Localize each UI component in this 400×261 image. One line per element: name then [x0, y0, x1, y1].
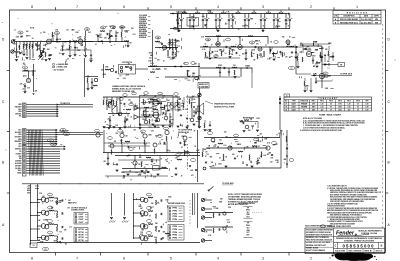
svg-text:.1: .1	[284, 163, 285, 165]
arrow X6	[56, 141, 57, 143]
resistor R99	[86, 78, 89, 83]
ribbon cable verticals	[29, 130, 30, 176]
wire AA mid	[206, 147, 268, 149]
transistor Q3	[118, 112, 122, 116]
capacitor C45	[61, 212, 63, 214]
wire W6	[27, 115, 59, 117]
capacitor C81	[180, 114, 182, 116]
tube V3 circle	[216, 42, 220, 46]
svg-text:WHT/BLK: WHT/BLK	[15, 149, 21, 151]
resistor R47	[144, 106, 149, 109]
input jack J1	[11, 40, 14, 43]
svg-text:22V: 22V	[348, 109, 351, 111]
wire opamp out2	[139, 116, 153, 118]
resistor R71 emitter	[56, 200, 59, 205]
wire pi extra	[204, 57, 240, 59]
svg-text:.022: .022	[24, 75, 27, 77]
resistor R22 rail	[221, 12, 226, 15]
svg-text:REVERB: REVERB	[301, 107, 307, 109]
svg-text:EXT: EXT	[247, 235, 250, 237]
resistor R84	[212, 213, 215, 218]
resistor R45	[116, 97, 118, 101]
svg-text:.01: .01	[141, 162, 143, 164]
resistor R6	[42, 48, 45, 53]
capacitor C68	[48, 54, 50, 56]
svg-text:220: 220	[180, 153, 183, 155]
label oval Q20	[48, 193, 53, 196]
switch block box	[140, 96, 174, 126]
capacitor C50	[160, 226, 162, 228]
resistor R77	[148, 223, 153, 226]
connector pin square W1	[23, 104, 25, 106]
svg-text:PIN: PIN	[173, 226, 178, 228]
transistor Q33	[156, 118, 160, 122]
svg-text:195V: 195V	[312, 107, 315, 109]
svg-text:220: 220	[45, 44, 48, 46]
svg-text:22UF: 22UF	[77, 50, 81, 52]
transistor Q14	[211, 138, 215, 142]
capacitor C33	[169, 120, 171, 122]
capacitor C73	[332, 55, 334, 57]
svg-text:PIN 3: PIN 3	[329, 101, 333, 103]
svg-text:GRY: GRY	[18, 143, 21, 145]
svg-text:0V: 0V	[330, 109, 332, 111]
resistor R98	[146, 156, 151, 159]
wire ot2	[302, 44, 304, 53]
svg-text:25KB: 25KB	[139, 25, 146, 27]
svg-text:10-23-95: 10-23-95	[361, 19, 371, 21]
resistor R5	[40, 42, 42, 45]
svg-text:195V: 195V	[338, 107, 341, 109]
logo registered mark	[355, 234, 356, 235]
ground output	[304, 90, 307, 92]
arrow W4	[57, 111, 58, 113]
arrow W5	[57, 113, 58, 115]
svg-text:230V: 230V	[312, 109, 315, 111]
filter capacitor C18B	[264, 14, 266, 19]
switch stack leads	[177, 40, 181, 42]
wire right col rail	[198, 95, 200, 128]
svg-text:YEL: YEL	[19, 116, 22, 118]
label oval V3B	[226, 38, 231, 41]
svg-text:220: 220	[128, 99, 131, 101]
resistor R118	[102, 100, 105, 105]
svg-text:220: 220	[26, 31, 29, 33]
transistor Q5	[164, 116, 168, 120]
node C	[127, 41, 128, 42]
label oval U2a	[129, 103, 133, 106]
resistor R8	[73, 40, 78, 43]
wire X7	[27, 143, 58, 145]
wire cc right vertical 2	[192, 193, 194, 215]
wire q row 2	[200, 76, 240, 78]
capacitor C62	[269, 49, 271, 51]
capacitor C2	[37, 42, 39, 46]
svg-text:P7: P7	[50, 140, 52, 142]
wire reverb down	[33, 64, 35, 92]
wire opamp out1	[139, 107, 153, 109]
title block outer	[305, 228, 385, 254]
svg-text:REVERB: REVERB	[139, 31, 148, 33]
wire stage4 out	[47, 235, 49, 237]
resistor R44	[111, 97, 113, 100]
wire pa extra3	[159, 156, 161, 171]
svg-text:220: 220	[101, 70, 104, 72]
extra input parts	[18, 45, 21, 50]
connector pin square Y9	[23, 165, 25, 167]
resistor R105	[272, 52, 275, 57]
connector pin square Y1	[23, 146, 25, 148]
tube chart table	[284, 97, 372, 111]
svg-text:1: 1	[356, 5, 358, 9]
wire stage3 base	[38, 225, 43, 227]
svg-text:BLU: BLU	[19, 130, 22, 132]
capacitor C82	[186, 117, 188, 119]
svg-text:BRN/WHT: BRN/WHT	[15, 141, 22, 143]
wire dd rail1	[205, 212, 233, 214]
resistor R70	[49, 234, 54, 237]
part number cells	[337, 242, 339, 248]
wire jack2	[205, 208, 212, 210]
potentiometer VR1 wiper	[39, 52, 44, 57]
svg-text:VIO/WHT: VIO/WHT	[16, 153, 22, 155]
junction PI	[217, 36, 218, 37]
diode stack D14	[193, 111, 195, 113]
capacitor C21	[225, 46, 227, 48]
svg-text:4-10-96: 4-10-96	[361, 21, 371, 24]
output jack J3	[201, 207, 204, 210]
svg-text:1.6V: 1.6V	[321, 107, 324, 109]
wire fb vertical	[310, 78, 312, 90]
resistor R62	[222, 154, 225, 160]
wire stage4 base	[38, 237, 43, 239]
arrow W1	[57, 104, 58, 106]
arrow spkr	[208, 187, 214, 192]
svg-text:.1: .1	[115, 38, 116, 40]
svg-text:1.2V: 1.2V	[348, 104, 351, 106]
zone tick marks bottom	[55, 253, 57, 256]
svg-text:2: 2	[310, 256, 312, 260]
wire pa extra1	[104, 142, 150, 144]
resistor R106	[289, 45, 294, 48]
capacitor C74	[316, 61, 318, 63]
label oval D4	[184, 62, 188, 65]
connector pin square Y12	[23, 172, 25, 174]
resistor R76	[148, 210, 153, 213]
svg-text:.01: .01	[58, 41, 60, 43]
wire speaker chain	[199, 88, 201, 126]
filter capacitor C15A	[215, 14, 217, 19]
svg-text:.1: .1	[231, 15, 232, 17]
svg-text:220: 220	[146, 238, 149, 240]
resistor R114	[163, 105, 166, 110]
svg-text:.1: .1	[124, 144, 125, 146]
svg-text:.1: .1	[159, 47, 160, 49]
connector pin square Y7	[23, 160, 25, 162]
wire cc vertical 3	[133, 193, 135, 239]
wire sw right	[191, 97, 193, 101]
resistor R59	[218, 142, 223, 145]
capacitor C64	[127, 146, 129, 148]
label oval Q26	[147, 220, 152, 223]
ground right col 1	[177, 125, 180, 127]
wire stage2 base	[38, 212, 43, 214]
svg-text:100KB: 100KB	[139, 33, 146, 35]
resistor R27	[203, 45, 208, 48]
wire cc right vertical 3	[194, 193, 196, 215]
svg-text:1K: 1K	[197, 11, 199, 13]
svg-text:.01: .01	[313, 66, 315, 68]
ground AA1	[225, 165, 228, 167]
transistor Q8	[143, 134, 147, 138]
wire X4	[27, 136, 58, 138]
dash column	[187, 144, 189, 170]
wire mid77	[165, 76, 199, 78]
connector pin square Y8	[23, 163, 25, 165]
diode D17	[252, 125, 254, 127]
ground reverb	[24, 91, 27, 93]
svg-text:5: 5	[170, 5, 172, 9]
value labels jack panel	[213, 206, 216, 208]
diode D16	[246, 67, 248, 69]
label oval U3	[156, 99, 160, 102]
legend signal ground	[53, 66, 55, 68]
wire Y8	[27, 162, 61, 164]
resistor R42	[186, 70, 189, 76]
relay box K2	[153, 166, 160, 171]
ground sw mid	[152, 123, 155, 125]
output jack J4	[201, 216, 204, 219]
capacitor C69	[152, 114, 154, 116]
junctions mid row	[174, 66, 175, 67]
filter capacitor C12B	[180, 14, 182, 19]
node D	[283, 46, 284, 47]
pot wiper stage1b	[38, 55, 43, 60]
svg-text:.1: .1	[14, 55, 15, 57]
wire bottom long	[37, 242, 100, 244]
resistor R61	[252, 145, 257, 148]
wire cc vertical 1	[111, 193, 113, 216]
wire cluster85	[85, 76, 98, 78]
pot oval TREBLE	[110, 26, 115, 29]
wire Y9	[27, 165, 61, 167]
tube V8B	[153, 112, 159, 118]
svg-text:RTN: RTN	[79, 232, 84, 234]
ground input	[15, 59, 18, 61]
wire W long 2	[58, 106, 93, 108]
svg-text:.01: .01	[164, 114, 166, 116]
ground S1	[243, 130, 246, 132]
resistor R16	[167, 50, 170, 56]
connector pin square X6	[23, 141, 25, 143]
ground hatch 2	[123, 217, 126, 219]
transistor Q4	[144, 120, 148, 124]
svg-text:FUNCTION: FUNCTION	[300, 101, 307, 103]
svg-text:3: 3	[262, 256, 264, 260]
wire stage2 bias	[60, 49, 91, 51]
svg-text:.1: .1	[23, 60, 24, 62]
ground hatch 1	[110, 217, 113, 219]
wire pi right2	[287, 44, 289, 47]
svg-text:RED/WHT: RED/WHT	[15, 107, 22, 109]
power tube V5	[306, 51, 311, 56]
svg-text:220: 220	[213, 146, 216, 148]
connector P3 strip	[23, 145, 27, 176]
junction stage2	[30, 215, 31, 216]
resistor R82 emitter	[155, 239, 158, 244]
svg-text:220: 220	[163, 144, 166, 146]
capacitor C83	[223, 67, 225, 69]
svg-text:CONNECTIONS: CONNECTIONS	[71, 210, 84, 212]
svg-text:SH 1/1: SH 1/1	[376, 251, 383, 253]
svg-text:.022: .022	[224, 132, 227, 134]
right column res R115	[176, 100, 179, 105]
capacitor C86	[312, 59, 314, 61]
svg-text:220: 220	[175, 96, 178, 98]
label oval C9	[168, 42, 173, 45]
resistor R125	[69, 42, 71, 46]
svg-text:REVISED PER ECO: REVISED PER ECO	[340, 22, 359, 24]
wire pwr top	[302, 45, 322, 47]
wire pa mid1	[122, 168, 168, 170]
junction dots y184	[60, 183, 61, 184]
resistor R65 left	[201, 152, 204, 157]
svg-text:V2: V2	[285, 107, 287, 109]
wire sw vert1	[119, 97, 121, 112]
output transistor Q22	[41, 224, 46, 229]
transistor Q6	[190, 118, 194, 122]
op-amp U2	[134, 115, 139, 120]
connector pin square X3	[23, 134, 25, 136]
wire W1	[27, 104, 59, 106]
title block divider	[333, 228, 335, 254]
wire jack3	[205, 217, 212, 219]
pin stack BB1	[74, 213, 88, 225]
transistor Q16	[228, 146, 232, 150]
resistor R4	[32, 42, 34, 45]
svg-text:.022: .022	[287, 44, 290, 46]
wire B+ drop	[177, 12, 179, 32]
right column res R116	[182, 103, 185, 108]
svg-text:220: 220	[133, 130, 136, 132]
connector pin square Y6	[23, 158, 25, 160]
label oval Q22	[48, 220, 53, 223]
filter capacitor C14A	[202, 14, 204, 19]
tube plate marks	[307, 49, 312, 51]
thermal box	[30, 243, 37, 248]
bottom row line	[334, 248, 385, 250]
label oval Q23	[48, 231, 53, 234]
svg-text:.022: .022	[180, 105, 183, 107]
revision table	[333, 11, 381, 25]
wire stage1-2	[52, 41, 68, 43]
output transistor Q20	[41, 197, 46, 202]
node A junctions	[23, 41, 24, 42]
svg-text:PIN 2: PIN 2	[320, 101, 324, 103]
capacitor C80	[167, 109, 169, 111]
resistor R54	[143, 140, 146, 145]
wire PI bias	[205, 36, 268, 38]
svg-text:INPUT: INPUT	[26, 36, 31, 38]
transistor Q9b	[96, 133, 100, 137]
connector pin square X5	[23, 138, 25, 140]
capacitor C4	[69, 40, 71, 42]
connector pin square Y5	[23, 155, 25, 157]
resistor R69	[49, 223, 54, 226]
resistor R36	[303, 81, 306, 86]
svg-text:PIN: PIN	[173, 232, 178, 234]
part number row line	[334, 241, 385, 243]
resistor R58	[177, 158, 182, 161]
svg-text:RTN: RTN	[79, 240, 84, 242]
wire W long 1	[58, 104, 93, 106]
capacitor C43	[286, 147, 288, 149]
svg-text:.022: .022	[240, 122, 243, 124]
resistor R80 emitter	[155, 214, 158, 219]
resistor chain RA	[150, 65, 155, 68]
output jack J6	[201, 239, 204, 242]
filter capacitor C16B	[232, 14, 234, 19]
tube V4D circle	[286, 40, 290, 44]
resistor R113	[142, 111, 145, 116]
svg-text:.1: .1	[142, 225, 143, 227]
resistor R104	[148, 119, 151, 124]
transistor Q7	[120, 133, 124, 137]
resistor R90	[204, 52, 207, 57]
optocoupler box2	[175, 103, 180, 111]
wire X2	[27, 131, 58, 133]
svg-text:220: 220	[74, 42, 77, 44]
svg-text:.1: .1	[285, 42, 286, 44]
svg-text:.1: .1	[162, 94, 163, 96]
svg-text:.1: .1	[195, 177, 196, 179]
ground rail stubs	[178, 29, 180, 31]
capacitor C46	[61, 226, 63, 228]
svg-text:PIN 7: PIN 7	[347, 101, 351, 103]
connector pin square X2	[23, 132, 25, 134]
resistor hatch marks input	[23, 44, 25, 45]
wire sw mid3	[157, 110, 159, 118]
connector pin square Y10	[23, 167, 25, 169]
svg-text:E. SHORTING PLUG MUST BE IN PL: E. SHORTING PLUG MUST BE IN PLACE WHEN R…	[300, 129, 342, 132]
svg-text:0V: 0V	[330, 107, 332, 109]
resistor R119	[107, 102, 110, 107]
capacitor C28	[192, 72, 194, 74]
arrow X7	[56, 143, 57, 145]
svg-text:.022: .022	[306, 85, 309, 87]
resistor R122	[232, 66, 237, 69]
svg-text:2: 2	[310, 5, 312, 9]
wire dd rail2	[205, 226, 233, 228]
filter capacitor C18A	[260, 14, 262, 19]
svg-text:.022: .022	[164, 69, 167, 71]
stage1 pot body	[40, 52, 43, 57]
wire Y3	[27, 150, 61, 152]
arrow X1	[56, 129, 57, 131]
svg-text:SLV: SLV	[247, 227, 250, 229]
wire S vertical x280	[279, 96, 281, 130]
svg-text:OUTPUT MODULE: OUTPUT MODULE	[71, 207, 87, 209]
capacitor C76	[116, 163, 118, 165]
ground q row	[234, 76, 237, 78]
label oval V2A	[155, 36, 160, 39]
wire Y2	[27, 148, 61, 150]
legend chassis ground	[53, 64, 55, 66]
capacitor C51	[160, 238, 162, 240]
svg-text:.022: .022	[103, 161, 106, 163]
diode D7	[246, 164, 248, 166]
svg-text:RTN: RTN	[79, 235, 84, 237]
